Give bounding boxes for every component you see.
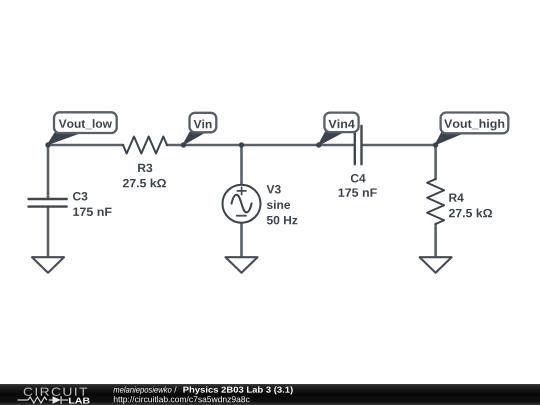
value label C3 [73, 192, 87, 201]
label flag Vout_low box [54, 112, 117, 133]
label flag Vin text [194, 120, 212, 129]
label flag Vout_low tail [48, 133, 78, 144]
wire main horizontal middle segment [167, 144, 354, 147]
resistor R3 body [123, 137, 167, 154]
label flag Vout_high box [441, 113, 509, 134]
label flag Vout_high text [444, 119, 504, 130]
V3 minus sign [237, 215, 246, 217]
ground right [420, 257, 452, 273]
footer logo LAB text [69, 398, 90, 404]
wire middle branch lower [240, 223, 243, 258]
footer logo CIRCUIT text [24, 388, 87, 396]
wire left branch lower [47, 207, 50, 258]
value label R3 [138, 164, 152, 173]
wire left branch upper [47, 145, 50, 199]
ground middle [226, 257, 258, 273]
footer logo diode triangle [53, 396, 61, 403]
wire right branch upper [434, 145, 437, 179]
value label C4 [351, 174, 366, 183]
capacitor C4 plates [355, 126, 362, 165]
footer url [114, 396, 250, 404]
value label R4 [449, 194, 463, 202]
voltage source V3 circle [223, 185, 261, 223]
footer credit title bold [183, 386, 292, 394]
footer bar [0, 384, 540, 405]
footer logo schematic glyph line [18, 396, 69, 404]
value label V3 [267, 185, 281, 194]
label flag Vin box [190, 113, 217, 133]
label flag Vout_low text [59, 119, 112, 129]
wire main horizontal right segment [362, 144, 435, 147]
footer credit author italic [113, 386, 171, 394]
label flag Vout_high tail [436, 133, 463, 145]
node Vout_low [45, 142, 50, 147]
wire main horizontal left segment [48, 144, 123, 147]
node Vin4 [316, 142, 321, 147]
V3 plus sign [237, 187, 246, 194]
node V3 junction [239, 142, 244, 147]
V3 sine glyph [232, 195, 252, 213]
ground left [32, 257, 64, 273]
resistor R4 body [427, 179, 444, 224]
node Vout_high [433, 142, 438, 147]
label flag Vin4 tail [319, 132, 342, 145]
wire middle branch upper [240, 145, 243, 185]
capacitor C3 plates [29, 199, 67, 207]
node Vin [181, 142, 186, 147]
label flag Vin tail [184, 133, 204, 145]
wire right branch lower [434, 224, 437, 257]
footer credit separator [174, 386, 176, 392]
label flag Vin4 box [324, 113, 358, 133]
label flag Vin4 text [328, 119, 354, 128]
